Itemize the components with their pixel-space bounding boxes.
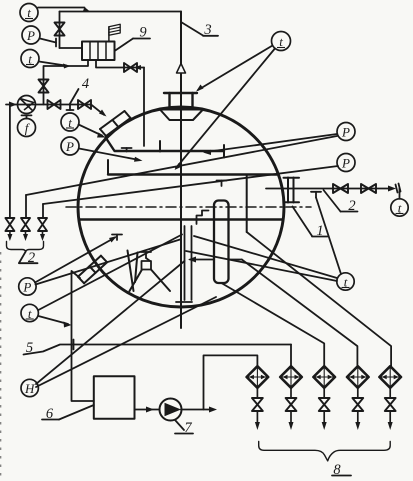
- svg-text:4: 4: [82, 76, 89, 92]
- svg-text:9: 9: [139, 25, 147, 41]
- svg-text:P: P: [22, 280, 31, 295]
- svg-text:t: t: [279, 34, 283, 49]
- svg-text:H: H: [24, 381, 35, 396]
- svg-text:3: 3: [203, 22, 211, 38]
- svg-text:8: 8: [333, 462, 341, 478]
- svg-text:2: 2: [28, 250, 35, 266]
- svg-text:P: P: [341, 125, 350, 140]
- svg-text:P: P: [26, 28, 35, 43]
- svg-text:P: P: [341, 156, 350, 171]
- svg-text:P: P: [65, 139, 74, 154]
- svg-text:6: 6: [46, 406, 54, 422]
- svg-text:f: f: [25, 121, 31, 136]
- svg-text:2: 2: [348, 198, 355, 214]
- svg-text:t: t: [27, 5, 31, 20]
- svg-text:5: 5: [26, 340, 33, 356]
- svg-text:1: 1: [316, 223, 323, 239]
- svg-text:7: 7: [184, 420, 192, 436]
